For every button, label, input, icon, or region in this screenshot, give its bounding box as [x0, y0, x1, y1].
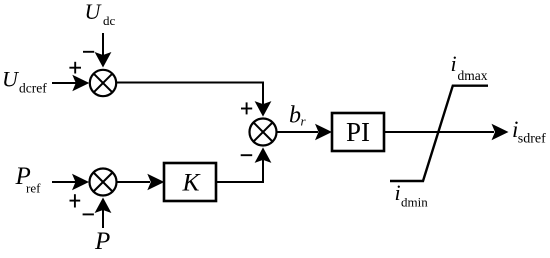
svg-text:dmax: dmax	[458, 68, 488, 83]
node b_r label	[289, 103, 307, 129]
node i_dmax label	[451, 51, 488, 83]
plus sign at P_ref input	[70, 194, 81, 207]
wire PI output through limiter to i_sdref	[384, 124, 509, 141]
node i_dmin label	[395, 180, 429, 210]
summing junction S1 (circle with X)	[90, 70, 116, 96]
svg-text:b: b	[289, 103, 301, 129]
plus sign at U_dcref input	[69, 62, 81, 74]
minus sign at P input	[83, 213, 94, 215]
svg-text:dmin: dmin	[401, 195, 428, 210]
svg-text:K: K	[181, 168, 201, 197]
svg-text:i: i	[451, 51, 457, 76]
wire P_ref input into summing junction S3	[52, 174, 89, 191]
svg-text:dcref: dcref	[19, 81, 47, 96]
summing junction S3 (circle with X)	[90, 169, 117, 196]
wire U_dc input (vertical into summing junction S1)	[95, 33, 112, 68]
svg-text:dc: dc	[103, 13, 116, 28]
limiter (saturation) symbol	[390, 86, 488, 181]
node i_sdref label	[512, 117, 546, 147]
gain block K	[164, 163, 216, 201]
PI controller block	[332, 113, 384, 151]
wire P input (vertical up into S3)	[95, 198, 112, 229]
node P_ref label	[15, 163, 42, 196]
svg-text:PI: PI	[346, 117, 370, 147]
node U_dc label	[85, 0, 116, 28]
minus sign at S2 bottom input	[241, 154, 253, 156]
wire K output to S2 (right then up)	[216, 147, 271, 182]
svg-text:U: U	[85, 0, 103, 24]
svg-text:sdref: sdref	[518, 132, 546, 147]
svg-text:U: U	[2, 67, 20, 92]
svg-text:i: i	[395, 180, 401, 205]
plus sign at S2 top input	[241, 102, 252, 114]
svg-text:P: P	[94, 228, 110, 255]
wire S3 output into K block	[117, 174, 165, 191]
wire S2 output into PI block	[277, 124, 333, 141]
minus sign at U_dc input	[83, 51, 94, 53]
wire S1 output to summing junction S2 (right then down)	[116, 83, 271, 117]
node U_dcref label	[2, 67, 47, 96]
wire U_dcref input (horizontal into summing junction S1)	[52, 75, 89, 92]
svg-text:ref: ref	[26, 181, 41, 196]
summing junction S2 (circle with X)	[250, 119, 277, 146]
